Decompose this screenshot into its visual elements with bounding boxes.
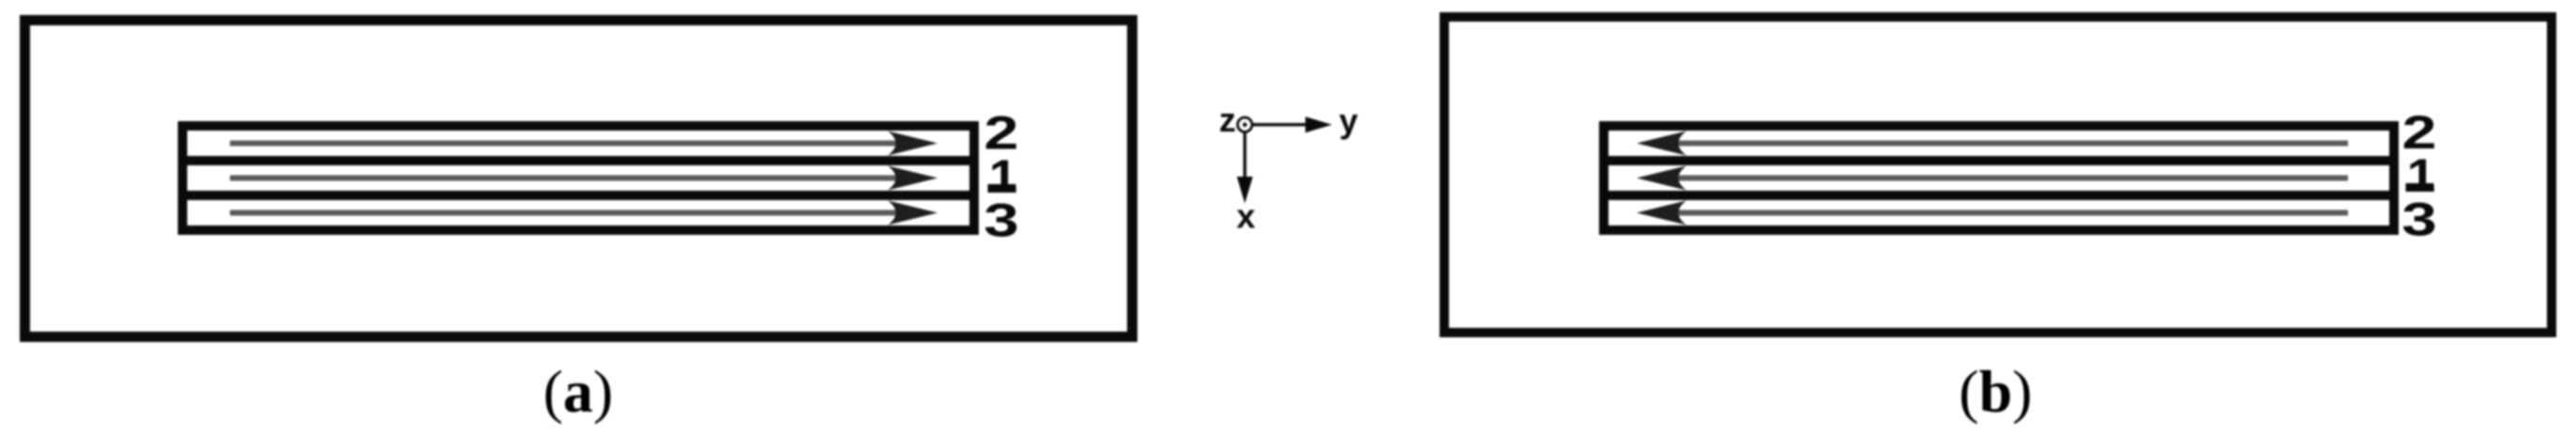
panel (b) layer 3 fiber arrow shaft	[1677, 210, 2348, 216]
svg-text:(a): (a)	[543, 358, 614, 425]
svg-text:(b): (b)	[1959, 358, 2032, 425]
svg-text:x: x	[1237, 197, 1256, 236]
panel (a) layer 3 fiber arrow shaft	[230, 210, 899, 216]
panel (b) layer 2 fiber arrow shaft	[1677, 141, 2348, 147]
coordinate axes: y-axis arrowhead	[1305, 116, 1333, 132]
panel (a) layer 1 fiber arrow shaft	[230, 176, 899, 181]
coordinate axes: z-axis center dot	[1242, 122, 1247, 127]
panel (a) layer 2 fiber arrow shaft	[230, 141, 899, 147]
panel (b) laminate stack outline	[1604, 126, 2394, 230]
panel (a) layer 2 arrowhead (rightward)	[888, 132, 937, 156]
panel (a) layer 3 arrowhead (rightward)	[888, 201, 937, 225]
svg-text:3: 3	[2401, 193, 2437, 245]
panel (b) outer substrate rectangle	[1444, 17, 2552, 333]
panel (a) outer substrate rectangle	[25, 21, 1133, 337]
coordinate axes: x-axis shaft	[1243, 132, 1246, 180]
panel (b) layer 1 fiber arrow shaft	[1677, 176, 2348, 181]
panel (a) divider between layer 2 and layer 1	[178, 156, 980, 165]
panel (b) layer label 1 base serif	[2406, 183, 2434, 192]
coordinate axes: z-axis out-of-plane ring	[1238, 117, 1252, 132]
svg-text:z: z	[1219, 101, 1236, 139]
panel (b) divider between layer 2 and layer 1	[1599, 156, 2399, 165]
panel (a) layer label 1 base serif	[988, 184, 1016, 193]
panel (b) layer 2 arrowhead (leftward)	[1637, 132, 1686, 156]
panel (b) divider between layer 1 and layer 3	[1599, 191, 2399, 200]
panel (a) laminate stack outline	[183, 126, 975, 230]
panel (b) layer 3 arrowhead (leftward)	[1637, 201, 1686, 225]
coordinate axes: y-axis shaft	[1253, 123, 1310, 126]
svg-text:y: y	[1339, 101, 1358, 140]
svg-text:3: 3	[983, 194, 1019, 246]
panel (a) divider between layer 1 and layer 3	[178, 191, 980, 200]
panel (b) layer 1 arrowhead (leftward)	[1637, 166, 1686, 191]
panel (a) layer 1 arrowhead (rightward)	[888, 166, 937, 191]
coordinate axes: x-axis arrowhead	[1237, 177, 1253, 204]
